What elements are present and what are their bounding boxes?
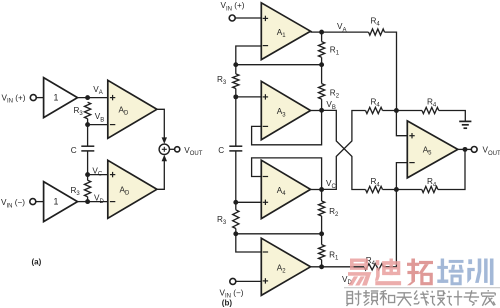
svg-text:R4: R4: [427, 98, 437, 109]
wire VIN(+) to buffer1: [37, 97, 44, 99]
op-amp AD bottom: [108, 160, 157, 218]
op-amp A3: [261, 81, 310, 139]
wire R4 VD corner up to minus node: [384, 190, 397, 267]
wire A4 output to node VC b: [311, 189, 322, 191]
svg-text:1: 1: [54, 196, 59, 206]
wire R3 to node VD: [87, 197, 89, 202]
plus input A5: [409, 135, 414, 137]
wire VB to AD- input: [88, 124, 108, 126]
wire cross line lower: [236, 233, 322, 235]
node R1 lower bottom: [319, 264, 324, 269]
resistor R4 row1: [369, 29, 385, 35]
svg-text:VOUT: VOUT: [483, 146, 500, 157]
wire R4 row3 to minus node: [383, 189, 422, 191]
minus input AD bottom: [110, 201, 115, 203]
resistor R4 feedback row3 right: [422, 186, 438, 192]
wire R4 row1 corner down to plus node: [385, 32, 397, 110]
minus input A2: [263, 251, 268, 253]
input terminal VIN(-) a: [30, 199, 36, 205]
input terminal VIN(+) a: [30, 95, 36, 101]
resistor R4 row3 left: [366, 186, 383, 192]
minus input A3: [263, 125, 268, 127]
node VA: [85, 95, 90, 100]
svg-text:VC: VC: [326, 179, 336, 190]
input terminal VIN(+) b: [229, 15, 235, 21]
wire VIN(+) to A1+: [235, 17, 261, 19]
svg-text:R3: R3: [217, 215, 227, 226]
svg-text:VIN (+): VIN (+): [221, 1, 245, 12]
wire A3 output to node VB b: [311, 110, 322, 112]
svg-text:R4: R4: [371, 98, 381, 109]
minus input AD top: [110, 124, 115, 126]
node R2 bottom junction: [319, 231, 324, 236]
svg-text:1: 1: [54, 92, 59, 102]
svg-text:C: C: [218, 146, 224, 155]
node A5 plus junction: [394, 108, 399, 113]
node A5 output: [463, 147, 468, 152]
buffer amp 2 gain 1 bottom: [44, 182, 78, 222]
resistor R4 VD row: [364, 264, 384, 270]
node A3 plus junction: [233, 94, 238, 99]
wire VD to AD2- input: [88, 201, 108, 203]
svg-text:R4: R4: [371, 17, 381, 28]
node R3 bottom junction: [233, 231, 238, 236]
arrow into summer from top: [162, 137, 167, 144]
input terminal VIN(-) b: [230, 278, 236, 284]
minus input A5: [409, 162, 414, 164]
node VD: [85, 199, 90, 204]
watermark char yi: [348, 259, 371, 286]
wire R3 to VB to capacitor: [87, 119, 89, 147]
crossover wire VB to lower row: [322, 110, 366, 189]
wire cross line upper: [236, 64, 322, 66]
svg-text:R2: R2: [330, 89, 340, 100]
svg-text:VD: VD: [94, 194, 104, 205]
svg-text:R2: R2: [329, 207, 339, 218]
svg-text:R4: R4: [371, 177, 381, 188]
resistor R2 upper: [321, 65, 323, 84]
op-amp A2: [261, 238, 310, 295]
node A4 plus junction: [233, 200, 238, 205]
watermark char tuo: [407, 259, 433, 286]
svg-text:VIN (+): VIN (+): [2, 94, 26, 105]
resistor R1 lower: [321, 234, 323, 245]
resistor R3 lower b: [233, 210, 239, 229]
minus input A1: [263, 45, 268, 47]
svg-text:R3: R3: [71, 186, 81, 197]
resistor R3 a lower: [85, 180, 91, 196]
svg-text:VOUT: VOUT: [184, 146, 202, 157]
svg-text:R4: R4: [427, 177, 437, 188]
svg-text:R1: R1: [329, 251, 339, 262]
svg-text:R1: R1: [330, 46, 340, 57]
node A1 minus junction left: [233, 62, 238, 67]
svg-text:VIN (−): VIN (−): [1, 198, 25, 209]
wire A3 feedback loop: [252, 111, 322, 145]
wire A5 output: [458, 148, 471, 150]
wire plus node down to A5+: [396, 111, 407, 136]
wire VIN(-) to buffer2: [36, 201, 44, 203]
resistor R3 upper b: [235, 65, 237, 74]
wire A2 output VD row: [311, 266, 365, 268]
node R1 bottom junction: [319, 62, 324, 67]
summing junction circle: [159, 144, 169, 154]
plus input A3: [263, 96, 268, 98]
node VA b: [319, 30, 324, 35]
wire C to node VC: [87, 151, 89, 180]
svg-text:VA: VA: [93, 85, 102, 96]
node VC: [85, 172, 90, 177]
resistor R1 upper: [321, 32, 323, 42]
node A5 minus junction: [394, 187, 399, 192]
wire summer to VOUT terminal a: [170, 148, 175, 150]
wire C to A4 plus rail: [235, 151, 237, 210]
svg-text:R3: R3: [74, 106, 84, 117]
output terminal VOUT b: [471, 147, 477, 153]
wire VC to AD2+ input: [88, 174, 108, 176]
plus input A4: [263, 201, 268, 203]
svg-text:(b): (b): [222, 298, 233, 307]
wire AD top output to summer: [157, 109, 164, 138]
ground symbol: [459, 120, 471, 122]
svg-text:C: C: [71, 146, 77, 155]
op-amp A4: [261, 160, 310, 218]
plus input A1: [263, 17, 268, 19]
output terminal VOUT a: [175, 147, 180, 152]
resistor R4 row2 left: [366, 107, 383, 113]
wire VA to R4 row1: [322, 31, 369, 33]
wire R4 feedback to output column: [438, 149, 465, 189]
wire A1- feedback to left rail: [236, 46, 261, 65]
watermark char xun: [467, 259, 493, 286]
wire A1 output to node VA b: [311, 31, 322, 33]
wire buffer1 output to AD+ input: [78, 97, 108, 99]
wire R4 row2 to plus node: [383, 110, 423, 112]
wire R4 row2 right to ground: [439, 111, 466, 122]
node VC b: [319, 187, 324, 192]
capacitor C b: [229, 145, 242, 147]
node VB b: [319, 108, 324, 113]
minus input A4: [263, 176, 268, 178]
watermark underline: [344, 287, 500, 288]
wire left rail to A2-: [236, 234, 261, 252]
wire VIN(-) to A2+: [236, 280, 261, 282]
node VB: [85, 122, 90, 127]
svg-text:R3: R3: [217, 75, 227, 86]
plus input A2: [263, 280, 268, 282]
op-amp AD top: [108, 80, 157, 138]
op-amp A1: [261, 3, 310, 60]
watermark tagline text: [347, 290, 496, 306]
wire AD bottom output to summer: [157, 160, 164, 189]
wire to A4 plus: [236, 201, 261, 203]
resistor R4 row2 right: [422, 107, 439, 113]
svg-text:(a): (a): [32, 257, 42, 266]
svg-text:VB: VB: [326, 100, 335, 111]
buffer amp 1 gain 1 top: [44, 78, 78, 118]
resistor R2 lower: [321, 190, 323, 202]
plus input AD bottom: [110, 174, 115, 176]
svg-text:VC: VC: [92, 166, 102, 177]
watermark char di: [375, 259, 401, 286]
capacitor C a: [81, 145, 94, 147]
wire A4 feedback loop: [252, 158, 322, 190]
wire buffer2 to VD node: [78, 201, 88, 203]
crossover wire VC to upper row: [322, 111, 366, 190]
watermark char pei: [437, 259, 463, 286]
svg-text:VB: VB: [95, 112, 104, 123]
arrow into summer from bottom: [162, 155, 167, 162]
wire minus node up to A5-: [396, 163, 407, 190]
wire to A3 plus: [236, 96, 261, 98]
op-amp A5: [407, 121, 458, 178]
resistor R3 a upper: [85, 102, 91, 118]
plus input AD top: [110, 97, 115, 99]
